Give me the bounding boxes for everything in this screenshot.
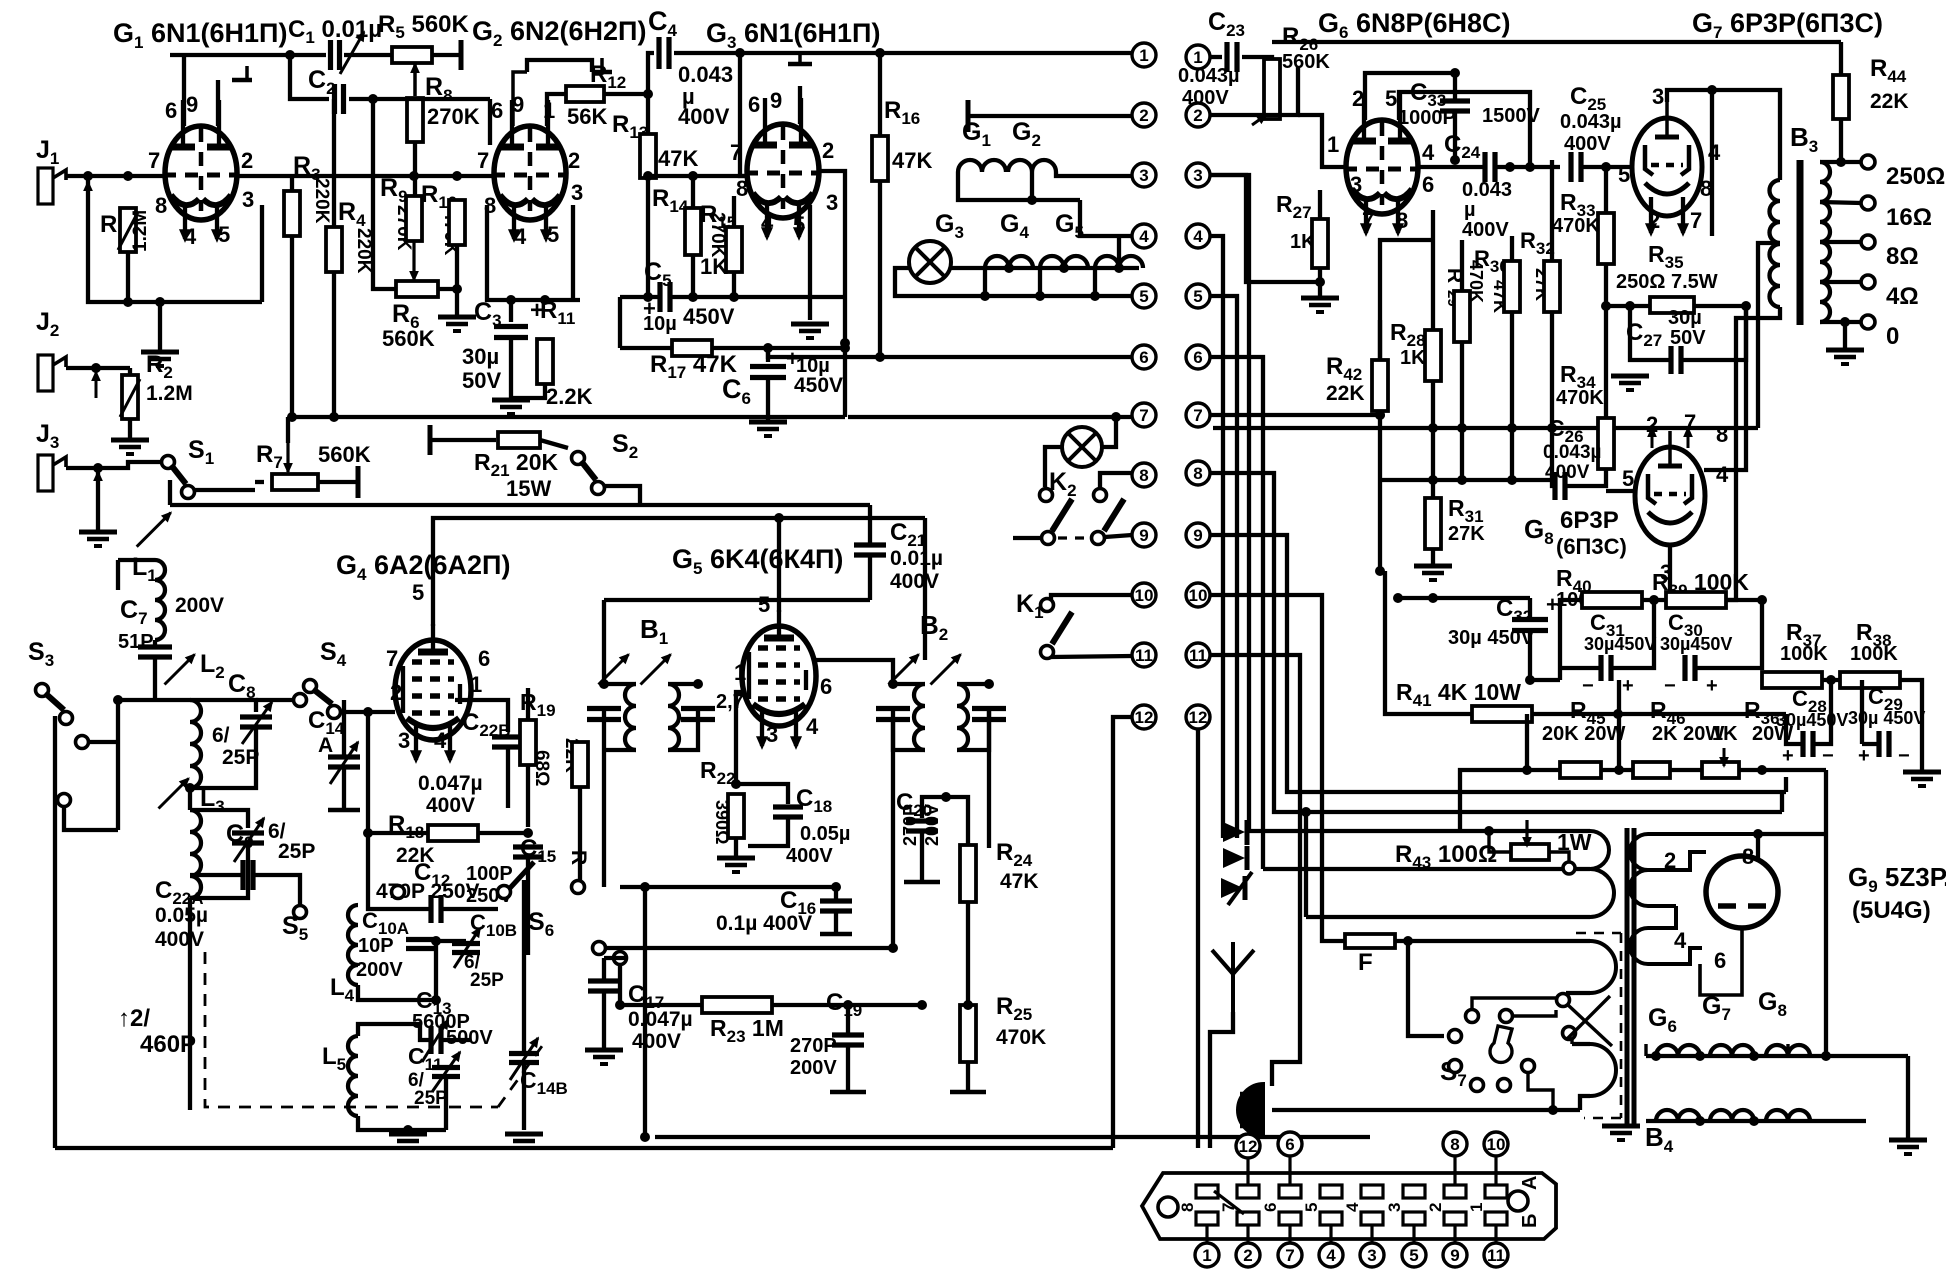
wire S2 right: [604, 486, 640, 505]
label R24 value: [1000, 870, 1039, 893]
svg-text:22K: 22K: [1870, 90, 1909, 113]
label R35 value: [1616, 271, 1718, 293]
wire R13 top: [646, 94, 650, 134]
wire R3 top: [290, 176, 294, 191]
pin 2,7: [716, 691, 744, 713]
resistor R32: [1544, 261, 1560, 312]
wire C12 left: [368, 880, 431, 909]
jack J1: [38, 168, 66, 204]
wire socket lead: [1453, 1225, 1456, 1243]
capacitor B1 right: [681, 709, 715, 720]
wire c24 in: [1418, 165, 1485, 169]
junction: [540, 295, 550, 305]
junction: [123, 171, 133, 181]
bus wire 5: [1210, 296, 1237, 838]
svg-text:56K: 56K: [567, 104, 607, 129]
junction: [875, 352, 885, 362]
junction: [984, 679, 994, 689]
resistor R26: [1264, 59, 1280, 119]
resistor R29: [1454, 291, 1470, 342]
coil G3: [985, 256, 1033, 268]
wire R6 right: [438, 245, 457, 289]
ground R27: [1301, 298, 1339, 312]
label C9: [226, 820, 254, 852]
label R31: [1448, 495, 1484, 526]
terminal C16: [820, 932, 852, 937]
label C32 value: [1448, 627, 1535, 649]
svg-text:400V: 400V: [1564, 133, 1611, 155]
pin 2: [241, 148, 253, 173]
label F: [1358, 949, 1373, 976]
junction: [1505, 162, 1515, 172]
bus wire 10: [1210, 595, 1322, 933]
B4 bottom step: [1580, 1096, 1590, 1110]
minus C31: [1582, 675, 1594, 697]
wire B1 feed: [604, 598, 870, 602]
B4 HV winding: [1630, 834, 1758, 870]
label C22A value: [155, 904, 208, 927]
junction: [1601, 162, 1611, 172]
label R34 value: [1556, 387, 1604, 409]
svg-text:100K: 100K: [1850, 643, 1898, 665]
svg-text:47K: 47K: [658, 146, 698, 171]
junction: [963, 1000, 973, 1010]
pin 3: [1350, 172, 1362, 197]
wire B2 left down: [891, 709, 895, 948]
svg-text:−: −: [1582, 675, 1594, 697]
wire J2: [66, 366, 130, 370]
wire C17 bottom: [602, 991, 606, 1048]
resistor R15: [726, 227, 742, 272]
tube G2 6N2: [492, 100, 568, 220]
wire B1 lp bottom: [604, 748, 636, 752]
svg-text:7: 7: [1690, 208, 1702, 233]
svg-text:0.043µ: 0.043µ: [1543, 442, 1602, 463]
terminal 1 col1: [1132, 43, 1156, 67]
capacitor C31 electrolytic: [1601, 655, 1611, 681]
svg-text:6: 6: [1714, 948, 1726, 973]
label C22A: [155, 877, 204, 908]
label L3: [200, 784, 225, 816]
switch S7 contact h: [1498, 1079, 1511, 1092]
terminal 11 socket: [1484, 1243, 1508, 1267]
label C4: [648, 6, 678, 40]
wire R2 top: [128, 368, 132, 375]
svg-text:3: 3: [1652, 84, 1664, 109]
switch K2 arm b: [1104, 499, 1124, 531]
label C33 value2: [1482, 105, 1540, 127]
switch K1 contact: [1041, 599, 1054, 612]
socket strip outline: [1142, 1173, 1556, 1239]
resistor R2: [122, 375, 138, 419]
svg-text:12: 12: [1189, 708, 1208, 727]
terminal 5 col1: [1132, 284, 1156, 308]
terminal 5 socket: [1402, 1243, 1426, 1267]
label tube G5: [672, 544, 843, 578]
socket pin bottom 1: [1485, 1212, 1507, 1225]
socket pin num 2: [1426, 1203, 1445, 1212]
label C26: [1548, 415, 1584, 446]
label G8: [1524, 514, 1554, 548]
wire B2 lp join: [893, 720, 925, 750]
dashed box B4 bottom: [1584, 1117, 1621, 1120]
wire C18: [736, 784, 788, 804]
wire K2 left line: [1013, 536, 1041, 540]
wire R33 top: [1604, 167, 1608, 213]
bus wire 3: [1210, 175, 1249, 831]
resistor R13: [640, 134, 656, 178]
bus wire 8: [1210, 473, 1782, 812]
wire C17 stem: [602, 958, 606, 981]
arrow C8: [242, 702, 272, 744]
label L1: [132, 553, 157, 585]
svg-text:3: 3: [242, 187, 254, 212]
label C30 value: [1660, 634, 1732, 654]
capacitor C7: [138, 647, 172, 657]
label R34: [1560, 361, 1596, 392]
wire: [843, 297, 847, 417]
coil L2: [190, 700, 201, 788]
resistor R5: [392, 47, 432, 63]
terminal 1 socket: [1195, 1243, 1219, 1267]
switch K2 contact b: [1094, 489, 1107, 502]
heater arrows G7: [1646, 197, 1688, 235]
label C22A value2: [155, 928, 204, 951]
switch K1 contact b: [1041, 646, 1054, 659]
label C26 value2: [1545, 462, 1590, 483]
junction: [409, 171, 419, 181]
label R24: [996, 839, 1033, 870]
label R28: [1390, 319, 1426, 350]
wire four: [1117, 236, 1121, 268]
junction: [1428, 593, 1438, 603]
label R18: [388, 811, 424, 842]
svg-text:6: 6: [748, 92, 760, 117]
label R21 value2: [506, 476, 551, 501]
wire HV top right: [1758, 832, 1826, 836]
capacitor C21: [854, 545, 886, 555]
svg-text:5: 5: [793, 212, 805, 237]
tube G5 6K4: [742, 610, 816, 726]
resistor R35: [1650, 297, 1694, 313]
wire C17 link: [604, 956, 626, 960]
label R32 value: [1532, 268, 1552, 301]
svg-text:3: 3: [1350, 172, 1362, 197]
svg-text:4: 4: [806, 714, 819, 739]
svg-text:9: 9: [1139, 526, 1148, 545]
junction: [93, 463, 103, 473]
resistor R22: [728, 794, 744, 838]
label C17 value2: [632, 1030, 681, 1053]
wire b3 sec top: [1820, 160, 1862, 164]
switch S7 contact i: [1522, 1060, 1535, 1073]
label C19: [826, 989, 862, 1020]
junction: [1393, 593, 1403, 603]
svg-text:12: 12: [1135, 708, 1154, 727]
terminal 9 socket: [1443, 1243, 1467, 1267]
junction: [1301, 807, 1311, 817]
svg-text:3: 3: [571, 180, 583, 205]
label J2: [36, 308, 59, 340]
arrow C11: [432, 1052, 460, 1092]
junction: [640, 1132, 650, 1142]
label G1 coil: [962, 118, 991, 150]
label R45 value: [1542, 723, 1625, 745]
label R16: [884, 97, 920, 128]
capacitor C10A: [406, 940, 434, 949]
svg-text:1: 1: [1327, 132, 1339, 157]
wire top bus corner: [1836, 40, 1841, 44]
plug prong1: [1240, 1092, 1264, 1097]
resistor R3: [284, 191, 300, 236]
wire r43 right: [1549, 852, 1569, 862]
wire G7 grid: [1630, 165, 1632, 169]
selector contact top: [1223, 820, 1247, 870]
label C10A value2: [356, 959, 403, 981]
svg-text:5: 5: [1193, 287, 1202, 306]
label C30: [1668, 610, 1703, 640]
coil G4: [1040, 256, 1088, 268]
svg-text:400V: 400V: [426, 794, 475, 817]
svg-text:8: 8: [1396, 208, 1408, 233]
terminal 11 col2: [1186, 643, 1210, 667]
heater arrows G3: [762, 201, 804, 239]
wire plate row: [1399, 92, 1530, 167]
label G8 winding: [1758, 988, 1787, 1020]
junction: [185, 783, 195, 793]
wire c29 left join: [1860, 680, 1864, 744]
heater arrows G2: [509, 203, 551, 241]
label C23 value: [1178, 65, 1240, 87]
wire L3 bottom: [188, 898, 192, 1110]
wire grid row G2: [292, 174, 492, 178]
label A: [1519, 1176, 1541, 1190]
pin 9: [770, 88, 782, 113]
svg-text:2.2K: 2.2K: [546, 384, 593, 409]
wire K1 top: [1051, 595, 1132, 600]
wire y812 right up: [1780, 792, 1784, 812]
wire R25 bottom: [966, 1062, 970, 1092]
junction: [1548, 1105, 1558, 1115]
label C17 value: [628, 1008, 693, 1031]
wire J1 to grid: [66, 174, 165, 178]
terminal 8 socket: [1443, 1132, 1467, 1156]
wire R29 bottom: [1460, 342, 1464, 480]
socket pin num 7: [1219, 1203, 1238, 1212]
svg-text:50V: 50V: [462, 368, 501, 393]
pin 2: [822, 138, 834, 163]
ground J3: [79, 532, 117, 546]
tube G3 6N1: [745, 98, 821, 218]
wire R8 bottom: [413, 142, 417, 196]
wire L5 bottom: [358, 1116, 408, 1130]
pin 8: [736, 176, 748, 201]
winding G8: [1766, 1045, 1810, 1056]
switch S7 keyhole: [1490, 1026, 1512, 1062]
junction: [329, 412, 339, 422]
resistor R19: [520, 720, 536, 765]
label B3 8Ω text: [1886, 243, 1919, 270]
label R23: [710, 1015, 784, 1046]
wire R33 down: [1604, 264, 1608, 306]
pin 4: [434, 728, 447, 753]
junction: [1695, 1051, 1705, 1061]
tube G1 6N1: [163, 100, 239, 220]
wire C5 left stem: [618, 297, 622, 348]
arrow R1 wiper: [84, 182, 91, 208]
open contact: [572, 881, 585, 894]
label C23 value2: [1182, 87, 1229, 109]
resistor R25: [960, 1005, 976, 1062]
svg-text:4: 4: [761, 210, 774, 235]
svg-text:4: 4: [1674, 928, 1687, 953]
svg-text:1K: 1K: [1400, 347, 1426, 369]
svg-text:1: 1: [470, 672, 482, 697]
wire G1 grid stem: [216, 80, 220, 126]
wire R29 top: [1460, 240, 1464, 291]
junction: [363, 828, 373, 838]
switch K2 pivot a: [1042, 532, 1055, 545]
svg-text:1: 1: [1202, 1246, 1211, 1265]
ground G1 cathode: [141, 352, 179, 366]
wire tap c: [1564, 993, 1567, 998]
wire S6 down: [522, 880, 526, 1053]
junction: [941, 792, 951, 802]
label C16: [780, 887, 816, 918]
wire R27 top: [1318, 190, 1322, 219]
label C31: [1590, 610, 1625, 640]
svg-text:400V: 400V: [1182, 87, 1229, 109]
label B3: [1790, 122, 1818, 156]
arrow G8 pin7: [1684, 428, 1691, 448]
wire s7 cross1: [1568, 1005, 1612, 1046]
pin 5: [793, 212, 805, 237]
wire G5 grid left: [736, 692, 742, 784]
capacitor C16: [820, 901, 852, 911]
label R6 value: [382, 326, 435, 351]
switch S2: [572, 452, 605, 495]
variable capacitor C11: [432, 1068, 460, 1077]
wire term2 row: [1210, 67, 1298, 115]
winding B3 primary2: [1770, 244, 1780, 307]
svg-text:3: 3: [1385, 1203, 1404, 1212]
terminal 4 col2: [1186, 224, 1210, 248]
wire plug bottom row: [1272, 1108, 1580, 1112]
wire socket lead: [1494, 1225, 1497, 1243]
terminal B3 0: [1861, 315, 1875, 329]
label R12: [590, 61, 626, 92]
wire B1 left down: [602, 709, 606, 887]
label B3 16Ω text: [1886, 204, 1932, 231]
socket pin top 2: [1444, 1185, 1466, 1198]
wire AVC bus: [170, 503, 870, 507]
svg-text:400V: 400V: [155, 928, 204, 951]
wire R31 bottom: [1431, 549, 1435, 564]
svg-text:400V: 400V: [632, 1030, 681, 1053]
wire c30 r: [1695, 600, 1762, 668]
label G4 coil: [1000, 210, 1029, 242]
junction: [1375, 566, 1385, 576]
pin 3: [826, 190, 838, 215]
B4 tap line2: [1572, 1042, 1590, 1046]
svg-text:5: 5: [758, 592, 770, 617]
wire C9 top: [190, 810, 248, 828]
wire R14 bottom: [691, 255, 695, 297]
label C1: [288, 16, 382, 47]
wire B2 plate feed2: [923, 518, 927, 660]
grid cap terminal: [232, 78, 252, 83]
svg-text:450V: 450V: [683, 304, 735, 329]
capacitor C25: [1571, 152, 1581, 182]
heater arrows G4: [411, 724, 455, 762]
svg-text:−: −: [1664, 675, 1676, 697]
wire top bus right: [740, 51, 1132, 55]
label C14: [308, 707, 345, 738]
wire to G4 grid: [368, 710, 395, 714]
socket pin top 5: [1320, 1185, 1342, 1198]
wire S4 out: [340, 710, 368, 714]
svg-text:3: 3: [766, 722, 778, 747]
label G9: [1848, 862, 1946, 896]
terminal C19: [830, 1090, 866, 1095]
wire b3 prim mid: [1758, 243, 1780, 428]
wire C6 top: [766, 348, 770, 362]
junction: [1375, 410, 1385, 420]
tube G4 6A2: [395, 624, 471, 740]
terminal stem: [798, 52, 802, 64]
terminal B3 4Ω: [1861, 275, 1875, 289]
svg-text:470K: 470K: [1556, 387, 1604, 409]
svg-text:0.1µ 400V: 0.1µ 400V: [716, 912, 812, 935]
svg-text:460P: 460P: [140, 1031, 196, 1058]
wire C9 bottom: [190, 844, 248, 898]
label C22B value: [418, 772, 483, 795]
label C6: [722, 374, 751, 408]
junction: [1749, 1116, 1759, 1126]
svg-text:47K: 47K: [892, 148, 932, 173]
wire R2 bottom: [128, 419, 132, 438]
label K1: [1016, 590, 1044, 622]
wire B1 right down: [668, 709, 698, 750]
terminal 4 socket: [1319, 1243, 1343, 1267]
pin 3: [1652, 84, 1664, 109]
junction: [1826, 675, 1836, 685]
minus C28: [1822, 745, 1834, 767]
junction: [1525, 675, 1535, 685]
svg-text:+: +: [1622, 675, 1634, 697]
label C5 value: [643, 313, 677, 335]
svg-text:9: 9: [1450, 1246, 1459, 1265]
junction: [1651, 1051, 1661, 1061]
winding G7: [1710, 1045, 1754, 1056]
svg-text:2: 2: [568, 148, 580, 173]
junction: [1507, 475, 1517, 485]
terminal 1 col2: [1186, 45, 1210, 69]
wire C15 down: [526, 857, 530, 955]
label C18 value: [800, 823, 850, 845]
label R33: [1560, 189, 1596, 220]
wire R19 down: [526, 765, 530, 827]
pin 5: [412, 580, 424, 605]
coil L3: [190, 810, 201, 898]
ground C3: [492, 400, 530, 414]
wire sock 10: [1494, 1156, 1497, 1185]
switch K2 contact a: [1040, 489, 1053, 502]
label B1: [640, 614, 668, 648]
svg-text:4: 4: [1193, 227, 1203, 246]
junction: [693, 679, 703, 689]
ground C14B: [505, 1134, 543, 1148]
